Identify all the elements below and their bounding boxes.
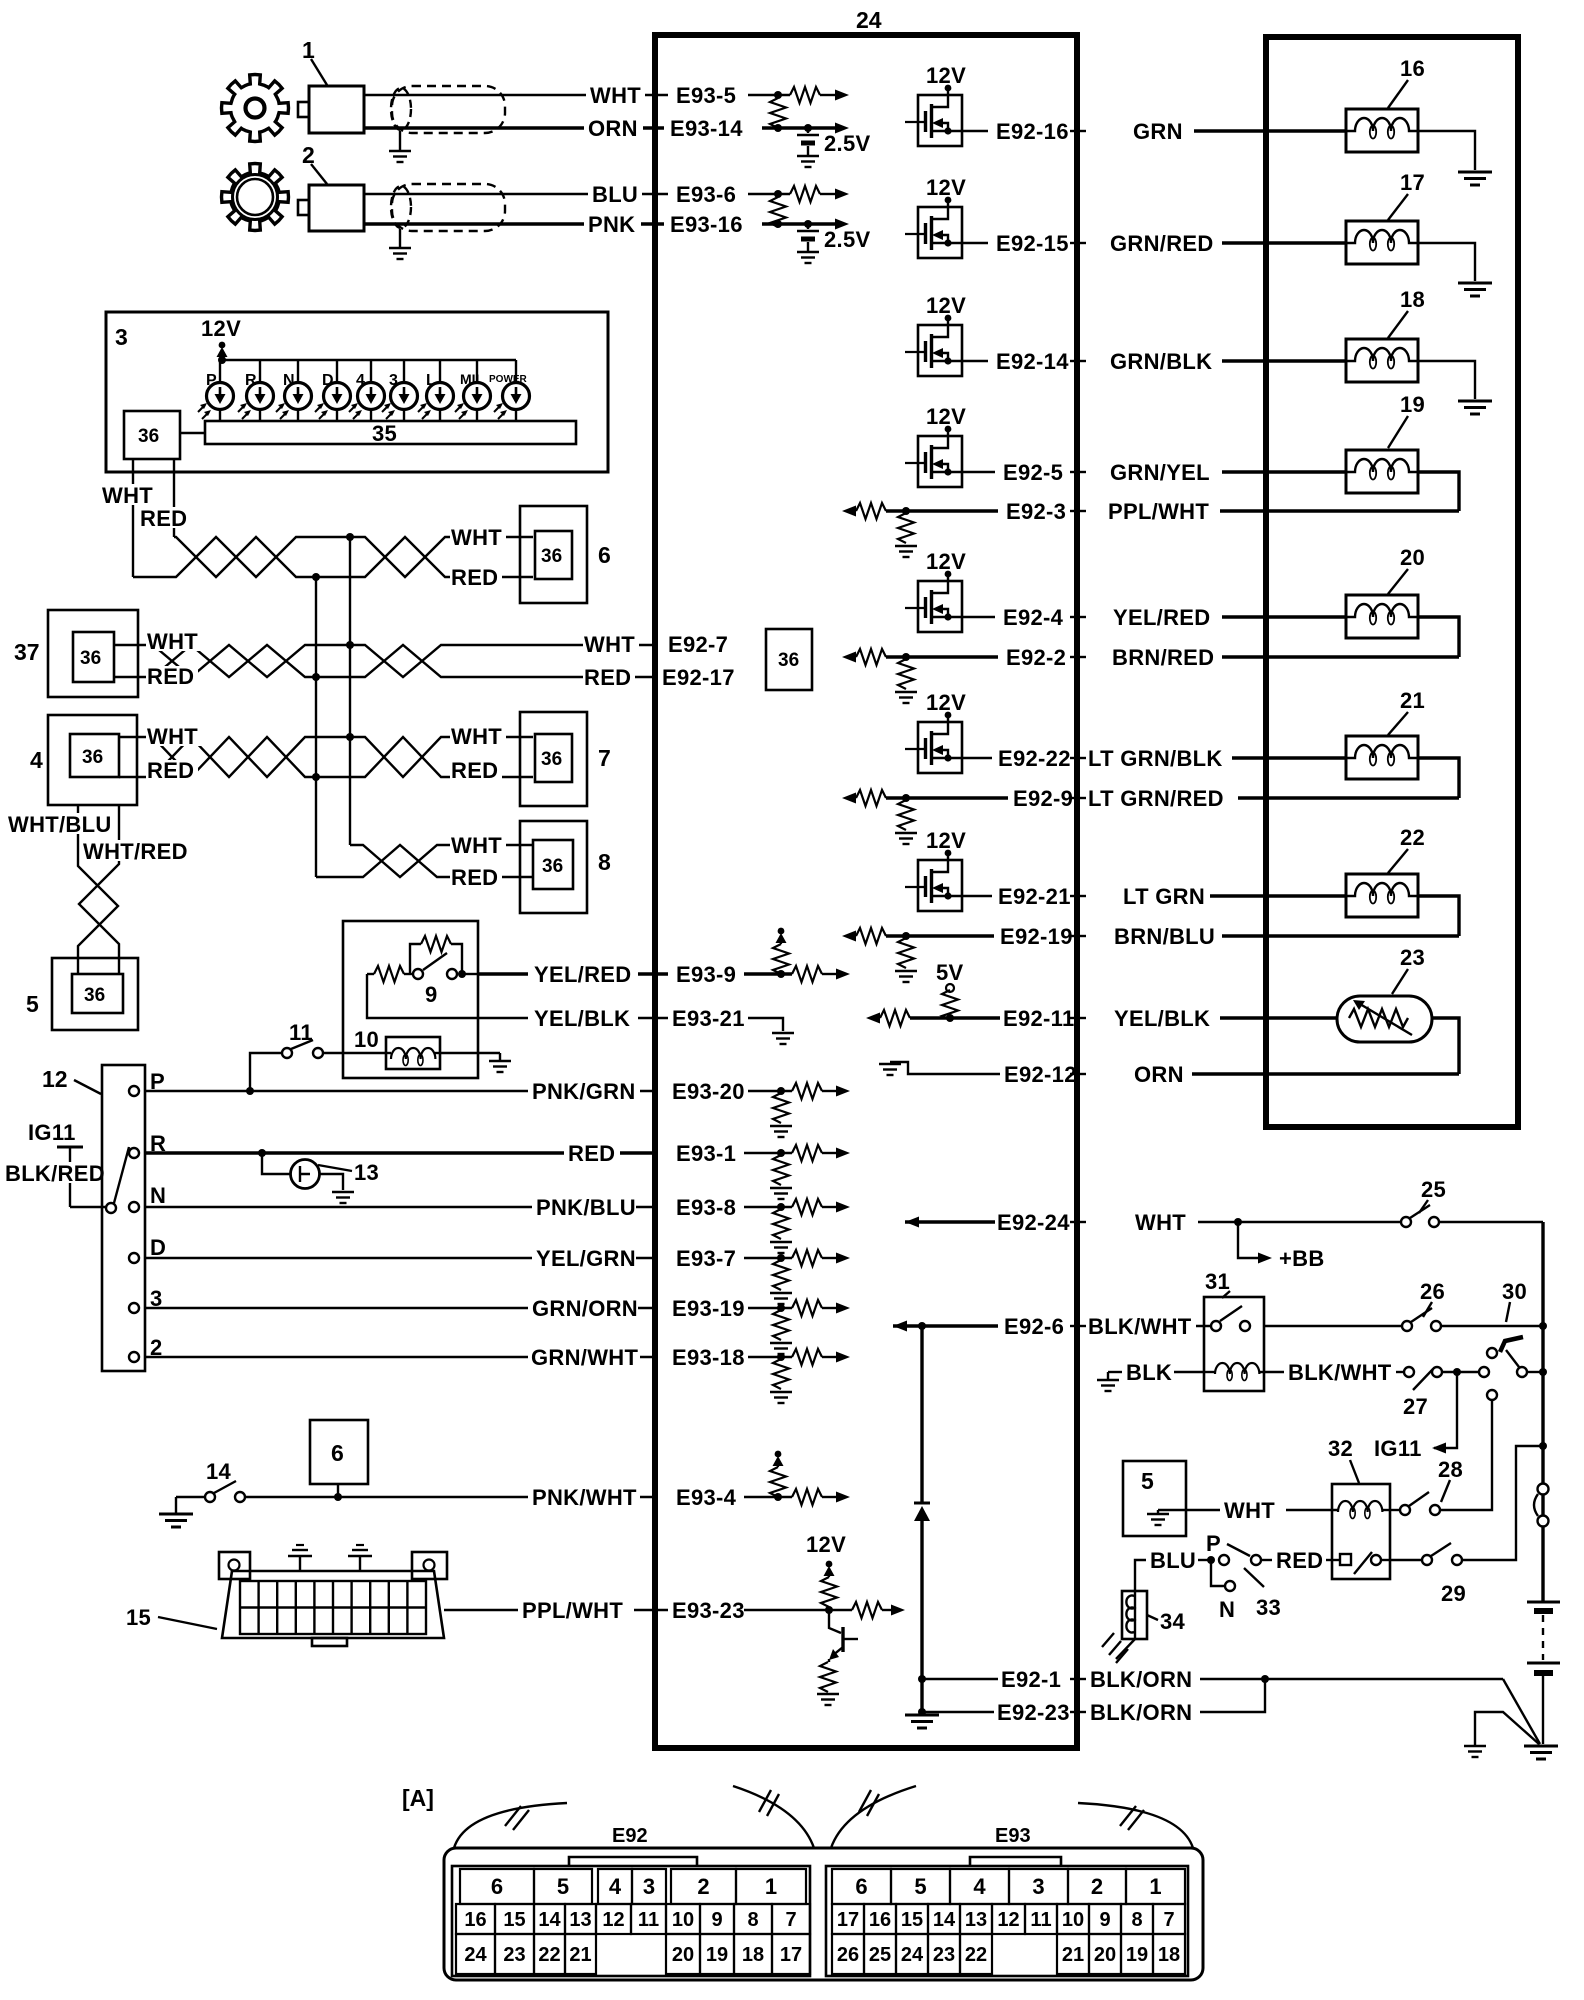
svg-text:6: 6 bbox=[598, 542, 611, 568]
pulldown E92-3 bbox=[842, 503, 998, 557]
E92 pin row 2 (7..16) bbox=[456, 1904, 810, 1934]
svg-text:5: 5 bbox=[1141, 1468, 1154, 1494]
shield connector 36 (panel) bbox=[124, 411, 205, 459]
svg-text:13: 13 bbox=[354, 1160, 379, 1185]
svg-text:RED: RED bbox=[451, 565, 498, 590]
ECU box 24 bbox=[655, 7, 1077, 1748]
wire switch 11 to P line bbox=[246, 1053, 282, 1095]
pin E93-1 bbox=[676, 1141, 850, 1199]
svg-text:4: 4 bbox=[609, 1874, 622, 1899]
svg-text:17: 17 bbox=[837, 1909, 859, 1931]
svg-text:E93-4: E93-4 bbox=[676, 1485, 737, 1510]
pin E92-6 bbox=[1004, 1314, 1086, 1339]
svg-text:12V: 12V bbox=[926, 404, 966, 429]
pin E92-4 bbox=[1003, 605, 1086, 630]
svg-text:25: 25 bbox=[1421, 1177, 1446, 1202]
resistor to comparator E93-9 bbox=[792, 966, 850, 982]
driver module 35 bbox=[205, 421, 576, 446]
pin E93-4 bbox=[676, 1451, 850, 1510]
indicator lamp 3 bbox=[382, 360, 418, 421]
svg-text:4: 4 bbox=[356, 372, 365, 389]
svg-text:E92-1: E92-1 bbox=[1001, 1667, 1061, 1692]
svg-text:RED: RED bbox=[140, 506, 187, 531]
switch 26 bbox=[1402, 1279, 1547, 1331]
svg-text:E92-6: E92-6 bbox=[1004, 1314, 1064, 1339]
sensor 1 connector box bbox=[298, 86, 364, 133]
junction node (pair 6 top) bbox=[346, 533, 354, 541]
svg-text:WHT: WHT bbox=[102, 483, 153, 508]
svg-text:GRN/ORN: GRN/ORN bbox=[532, 1296, 638, 1321]
pin E92-14 bbox=[996, 349, 1086, 374]
node E93-16 bbox=[670, 212, 849, 237]
svg-text:1: 1 bbox=[1149, 1874, 1161, 1899]
pull-up resistor E93-9 bbox=[773, 928, 789, 974]
svg-text:6: 6 bbox=[855, 1874, 867, 1899]
indicator lamp 4 bbox=[349, 360, 385, 421]
twisted pair 4 : WHT wire bbox=[119, 737, 533, 777]
indicator lamp N bbox=[276, 360, 312, 421]
pin E92-7 bbox=[664, 632, 734, 657]
transistor Q1 (E93-23) bbox=[829, 1610, 858, 1660]
shield splice bus A bbox=[346, 537, 354, 845]
svg-text:37: 37 bbox=[14, 639, 40, 665]
pin E93-8 bbox=[676, 1195, 850, 1253]
internal rail with diode bbox=[905, 1326, 939, 1728]
shift solenoid 18 bbox=[1346, 287, 1425, 382]
shield 2 (dashed) bbox=[391, 184, 505, 231]
svg-text:+BB: +BB bbox=[1279, 1246, 1325, 1271]
svg-text:5: 5 bbox=[26, 991, 39, 1017]
pin E92-16 bbox=[996, 119, 1086, 144]
node E93-14 bbox=[670, 116, 849, 141]
transistor driver E92-14 bbox=[905, 293, 988, 376]
svg-text:8: 8 bbox=[747, 1909, 758, 1931]
svg-text:17: 17 bbox=[780, 1944, 802, 1966]
svg-text:20: 20 bbox=[1400, 545, 1425, 570]
svg-text:2: 2 bbox=[302, 142, 315, 168]
connector 7 (shield 36) bbox=[520, 712, 611, 806]
svg-text:ORN: ORN bbox=[1134, 1062, 1184, 1087]
svg-text:36: 36 bbox=[82, 747, 103, 768]
svg-text:4: 4 bbox=[30, 747, 43, 773]
pair 6 labels bbox=[450, 525, 506, 590]
wire PNK/GRN (P) bbox=[145, 1079, 655, 1104]
data link connector 15 bbox=[219, 1552, 447, 1646]
svg-text:E93-9: E93-9 bbox=[676, 962, 736, 987]
starter feed wire bbox=[1440, 1400, 1492, 1510]
svg-text:GRN/YEL: GRN/YEL bbox=[1110, 460, 1210, 485]
svg-text:WHT: WHT bbox=[451, 525, 502, 550]
ground plate 5 (second) bbox=[1123, 1461, 1186, 1536]
connector E93 housing bbox=[826, 1825, 1188, 1976]
svg-text:E92-9: E92-9 bbox=[1013, 786, 1073, 811]
svg-text:16: 16 bbox=[464, 1909, 486, 1931]
wire ORN sensor1 bbox=[364, 116, 664, 141]
svg-text:2.5V: 2.5V bbox=[824, 227, 870, 252]
wire GRN/RED bbox=[1110, 231, 1346, 256]
svg-text:29: 29 bbox=[1441, 1581, 1466, 1606]
switch 14 bbox=[205, 1459, 245, 1502]
connector 8 (shield 36) bbox=[520, 821, 611, 913]
svg-text:12V: 12V bbox=[201, 316, 241, 341]
svg-text:36: 36 bbox=[542, 856, 563, 877]
wire BRN/BLU bbox=[1114, 924, 1459, 949]
svg-text:31: 31 bbox=[1205, 1269, 1230, 1294]
svg-text:P: P bbox=[206, 372, 217, 389]
svg-text:PNK: PNK bbox=[588, 212, 635, 237]
pin E92-21 bbox=[998, 884, 1086, 909]
svg-text:GRN/RED: GRN/RED bbox=[1110, 231, 1214, 256]
svg-text:25: 25 bbox=[869, 1944, 891, 1966]
pulldown E92-9 bbox=[842, 790, 1008, 844]
switch 11 bbox=[282, 1020, 386, 1058]
shift solenoid 17 bbox=[1346, 170, 1425, 264]
speed sensor 2 (gear) bbox=[222, 164, 289, 231]
svg-text:N: N bbox=[1219, 1597, 1235, 1622]
svg-text:WHT: WHT bbox=[1224, 1498, 1275, 1523]
svg-text:3: 3 bbox=[643, 1874, 655, 1899]
panel supply bus bbox=[222, 359, 516, 361]
resistor (parallel, box 9) bbox=[410, 936, 462, 974]
pin E92-3 bbox=[1006, 499, 1086, 524]
svg-text:11: 11 bbox=[638, 1909, 659, 1931]
throttle switch module box (9) bbox=[343, 921, 478, 1078]
pin E93-7 bbox=[676, 1246, 850, 1304]
shield 1 (dashed) bbox=[391, 86, 505, 133]
svg-text:PPL/WHT: PPL/WHT bbox=[522, 1598, 623, 1623]
svg-text:E92-16: E92-16 bbox=[996, 119, 1069, 144]
wire WHT/RED bbox=[79, 805, 188, 975]
svg-text:28: 28 bbox=[1438, 1457, 1463, 1482]
wire RED (R) bbox=[145, 1141, 655, 1166]
svg-text:16: 16 bbox=[869, 1909, 891, 1931]
svg-text:E93-21: E93-21 bbox=[672, 1006, 745, 1031]
svg-text:12V: 12V bbox=[806, 1532, 846, 1557]
node E93-5 bbox=[676, 83, 790, 108]
svg-text:LT GRN: LT GRN bbox=[1123, 884, 1205, 909]
svg-text:18: 18 bbox=[742, 1944, 764, 1966]
12V supply (panel) bbox=[201, 316, 241, 364]
svg-text:RED: RED bbox=[451, 758, 498, 783]
wire WHT sensor1 bbox=[364, 83, 668, 108]
5V supply (E92-11) bbox=[936, 960, 964, 1020]
svg-text:3: 3 bbox=[1032, 1874, 1044, 1899]
svg-text:26: 26 bbox=[1420, 1279, 1445, 1304]
pin E92-23 bbox=[922, 1700, 1086, 1725]
svg-text:WHT/RED: WHT/RED bbox=[83, 839, 188, 864]
svg-text:22: 22 bbox=[965, 1944, 987, 1966]
pin E93-18 bbox=[672, 1345, 850, 1403]
svg-text:E93-14: E93-14 bbox=[670, 116, 743, 141]
pin E92-5 bbox=[1003, 460, 1086, 485]
E92 pin row 1 (cavities 6..1) bbox=[460, 1869, 806, 1904]
svg-text:E92-11: E92-11 bbox=[1003, 1006, 1075, 1031]
svg-text:MIL: MIL bbox=[460, 371, 485, 387]
svg-text:24: 24 bbox=[464, 1944, 487, 1966]
back-up lamp feed 13 bbox=[262, 1153, 379, 1203]
svg-text:5: 5 bbox=[557, 1874, 569, 1899]
connector 5 (shield 36) bbox=[26, 958, 138, 1030]
svg-text:20: 20 bbox=[672, 1944, 694, 1966]
svg-text:E93-19: E93-19 bbox=[672, 1296, 745, 1321]
svg-text:18: 18 bbox=[1400, 287, 1425, 312]
ignition switch 30 bbox=[1479, 1279, 1547, 1400]
ground diagonal (BLK/ORN) bbox=[1503, 1679, 1540, 1744]
pin E92-19 bbox=[1000, 924, 1086, 949]
svg-text:E93-20: E93-20 bbox=[672, 1079, 745, 1104]
contact R bbox=[129, 1131, 166, 1158]
harness curve 2 bbox=[733, 1786, 814, 1848]
capacitor 2.5V (E93-16) bbox=[797, 224, 870, 263]
wire LT GRN/RED bbox=[1088, 786, 1459, 811]
pair 4 labels left bbox=[146, 724, 202, 783]
svg-text:12V: 12V bbox=[926, 175, 966, 200]
indicator lamp POWER bbox=[489, 360, 530, 421]
wire LT GRN bbox=[1123, 884, 1346, 909]
relay 31 coil bbox=[1204, 1363, 1264, 1381]
wire BLK/ORN (E92-23) bbox=[1090, 1679, 1265, 1725]
pin E92-22 bbox=[998, 746, 1086, 771]
indicator lamp MIL bbox=[455, 360, 491, 421]
battery ground bbox=[1524, 1746, 1558, 1759]
svg-text:2.5V: 2.5V bbox=[824, 131, 870, 156]
svg-text:IG11: IG11 bbox=[1374, 1436, 1422, 1461]
pulldown E92-19 bbox=[842, 928, 994, 982]
ground (18) bbox=[1418, 361, 1492, 414]
svg-text:21: 21 bbox=[1400, 688, 1425, 713]
wire BRN/RED bbox=[1112, 645, 1459, 670]
contact 2 bbox=[129, 1335, 163, 1362]
resistor (series, box 9) bbox=[367, 966, 413, 982]
pulldown E92-11 bbox=[866, 1010, 1000, 1026]
wire GRN/YEL bbox=[1110, 460, 1346, 485]
svg-text:36: 36 bbox=[138, 426, 159, 447]
contact 3 bbox=[129, 1286, 163, 1313]
wire WHT (panel down) bbox=[101, 459, 155, 577]
connector 6 (shield 36) bbox=[520, 506, 611, 603]
temp sensor 23 bbox=[1337, 945, 1432, 1042]
svg-text:E92-2: E92-2 bbox=[1006, 645, 1066, 670]
harness curve 4 bbox=[1078, 1803, 1193, 1848]
svg-text:IG11: IG11 bbox=[28, 1120, 76, 1145]
internal ground E92-12 bbox=[879, 1062, 1000, 1075]
svg-text:12: 12 bbox=[997, 1909, 1019, 1931]
park/neutral solenoid 34 bbox=[1122, 1591, 1186, 1639]
switch 25 bbox=[1401, 1177, 1543, 1227]
junction node (pair 6 bottom) bbox=[312, 573, 320, 581]
label 15 bbox=[126, 1605, 217, 1630]
resistor pull (E93-5) bbox=[790, 87, 849, 103]
E93 pin row 3 (18..26) bbox=[832, 1934, 1185, 1974]
shift solenoid 16 bbox=[1346, 56, 1425, 152]
pin E92-1 bbox=[922, 1667, 1086, 1692]
pin E92-15 bbox=[996, 231, 1086, 256]
resistor output (E93-23) bbox=[852, 1602, 905, 1618]
wire WHT/BLU bbox=[6, 805, 118, 975]
shield 2 ground bbox=[389, 229, 411, 259]
svg-text:LT GRN/RED: LT GRN/RED bbox=[1088, 786, 1224, 811]
twisted pair 37 : WHT wire bbox=[114, 645, 655, 677]
twisted pair 37 : RED wire bbox=[114, 645, 655, 677]
chassis tie with ground bbox=[1464, 1712, 1539, 1757]
svg-text:ORN: ORN bbox=[588, 116, 638, 141]
svg-text:9: 9 bbox=[425, 982, 438, 1007]
svg-text:36: 36 bbox=[84, 985, 105, 1006]
svg-text:24: 24 bbox=[856, 7, 882, 33]
chassis ground (34) bbox=[1102, 1633, 1135, 1663]
shift solenoid 20 bbox=[1346, 545, 1425, 638]
svg-text:36: 36 bbox=[80, 648, 101, 669]
indicator lamp L bbox=[418, 360, 454, 421]
switch 9 bbox=[413, 953, 478, 1007]
svg-text:RED: RED bbox=[147, 758, 194, 783]
svg-text:E93: E93 bbox=[995, 1825, 1031, 1847]
svg-text:1: 1 bbox=[765, 1874, 777, 1899]
svg-text:YEL/BLK: YEL/BLK bbox=[534, 1006, 630, 1031]
twisted pair to 6 : WHT wire bbox=[133, 537, 533, 577]
svg-text:E93-6: E93-6 bbox=[676, 182, 736, 207]
connector view label [A] bbox=[402, 1785, 434, 1811]
transistor driver E92-16 bbox=[905, 63, 988, 146]
shift solenoid 22 bbox=[1346, 825, 1425, 917]
shield connector 36 (inside ECU) bbox=[766, 629, 812, 690]
wire WHT (relay 32 coil) bbox=[1186, 1498, 1338, 1523]
pin E92-2 bbox=[1006, 645, 1086, 670]
node E93-6 bbox=[676, 182, 790, 207]
ground (solenoid 10) bbox=[440, 1053, 511, 1072]
pin ticks E93 side bbox=[654, 88, 656, 1617]
svg-text:D: D bbox=[150, 1235, 166, 1260]
right rail bbox=[1541, 1222, 1544, 1602]
svg-text:WHT: WHT bbox=[451, 833, 502, 858]
contact D bbox=[129, 1235, 166, 1263]
wire YEL/RED (E92-4) bbox=[1113, 605, 1346, 630]
svg-text:3: 3 bbox=[389, 372, 398, 389]
twisted pair 8 : top wire bbox=[350, 845, 533, 877]
svg-text:12V: 12V bbox=[926, 549, 966, 574]
svg-text:YEL/GRN: YEL/GRN bbox=[536, 1246, 636, 1271]
resistor pull (E93-6) bbox=[790, 186, 849, 202]
pair 4 labels right bbox=[450, 724, 506, 783]
ground stub left (connector 15) bbox=[288, 1545, 312, 1571]
svg-text:35: 35 bbox=[372, 421, 397, 446]
wire YEL/GRN (D) bbox=[145, 1246, 655, 1271]
svg-text:34: 34 bbox=[1160, 1609, 1186, 1634]
contact P bbox=[129, 1069, 165, 1096]
connector E92 housing bbox=[452, 1825, 810, 1976]
svg-text:BLK/ORN: BLK/ORN bbox=[1090, 1700, 1192, 1725]
switch 28 bbox=[1390, 1457, 1463, 1515]
svg-text:E92-5: E92-5 bbox=[1003, 460, 1063, 485]
wire YEL/RED bbox=[478, 962, 668, 987]
svg-text:E92-19: E92-19 bbox=[1000, 924, 1073, 949]
svg-text:E93-18: E93-18 bbox=[672, 1345, 745, 1370]
wire PPL/WHT bbox=[444, 1598, 668, 1623]
svg-text:17: 17 bbox=[1400, 170, 1425, 195]
indicator lamp R bbox=[238, 360, 274, 421]
twisted pair to 6 : RED wire bbox=[174, 537, 533, 577]
wire YEL/BLK (E92-11) bbox=[1114, 1006, 1337, 1031]
svg-text:E92-23: E92-23 bbox=[997, 1700, 1070, 1725]
svg-text:13: 13 bbox=[965, 1909, 987, 1931]
wire YEL/BLK bbox=[367, 974, 668, 1031]
contact N bbox=[129, 1183, 166, 1212]
svg-text:YEL/RED: YEL/RED bbox=[534, 962, 631, 987]
pin E93-9 bbox=[676, 962, 792, 987]
svg-text:23: 23 bbox=[933, 1944, 955, 1966]
pin E92-11 bbox=[1003, 1006, 1086, 1031]
pin E93-20 bbox=[672, 1079, 850, 1137]
svg-text:36: 36 bbox=[778, 650, 799, 671]
svg-text:23: 23 bbox=[1400, 945, 1425, 970]
svg-text:RED: RED bbox=[147, 664, 194, 689]
pin E93-23 bbox=[672, 1598, 852, 1623]
svg-text:16: 16 bbox=[1400, 56, 1425, 81]
svg-text:7: 7 bbox=[785, 1909, 796, 1931]
svg-text:15: 15 bbox=[503, 1909, 525, 1931]
svg-text:E92-4: E92-4 bbox=[1003, 605, 1064, 630]
svg-text:RED: RED bbox=[568, 1141, 615, 1166]
label 1 bbox=[302, 37, 327, 85]
wire BLU sensor2 bbox=[364, 182, 668, 207]
indicator panel 3 box bbox=[106, 312, 608, 472]
wire ORN (E92-12) bbox=[1134, 1062, 1459, 1087]
connector 4 (shield 36) bbox=[30, 715, 137, 805]
twisted pair 8 : bottom wire bbox=[316, 845, 533, 877]
svg-text:8: 8 bbox=[1131, 1909, 1142, 1931]
svg-text:E93-1: E93-1 bbox=[676, 1141, 736, 1166]
svg-text:10: 10 bbox=[1062, 1909, 1084, 1931]
svg-text:E92-14: E92-14 bbox=[996, 349, 1069, 374]
wire GRN/ORN (3) bbox=[145, 1296, 655, 1321]
emitter resistor to ground (E93-23) bbox=[817, 1659, 839, 1705]
svg-text:22: 22 bbox=[538, 1944, 560, 1966]
svg-text:E93-7: E93-7 bbox=[676, 1246, 736, 1271]
svg-text:L: L bbox=[426, 372, 436, 389]
wire GRN/WHT (2) bbox=[145, 1345, 655, 1370]
svg-text:WHT/BLU: WHT/BLU bbox=[8, 812, 112, 837]
svg-text:10: 10 bbox=[354, 1027, 379, 1052]
battery bbox=[1527, 1602, 1560, 1744]
12V supply (E93-23) bbox=[806, 1532, 846, 1607]
svg-text:7: 7 bbox=[1163, 1909, 1174, 1931]
pin E92-17 bbox=[660, 665, 742, 690]
connector 6 (second) bbox=[310, 1420, 368, 1501]
harness curve 1 bbox=[454, 1803, 567, 1848]
return wire (20) bbox=[1418, 617, 1459, 657]
svg-text:8: 8 bbox=[598, 849, 611, 875]
svg-text:2: 2 bbox=[1091, 1874, 1103, 1899]
indicator lamp D bbox=[315, 360, 351, 421]
transistor driver E92-15 bbox=[905, 175, 988, 258]
svg-text:19: 19 bbox=[1400, 392, 1425, 417]
svg-text:5: 5 bbox=[914, 1874, 926, 1899]
ground (switch 14) bbox=[159, 1497, 205, 1527]
svg-text:E92-3: E92-3 bbox=[1006, 499, 1066, 524]
harness curve 3 bbox=[831, 1786, 916, 1848]
svg-text:WHT: WHT bbox=[147, 629, 198, 654]
svg-text:21: 21 bbox=[1062, 1944, 1084, 1966]
pulldown E92-2 bbox=[842, 649, 998, 703]
svg-text:E92-17: E92-17 bbox=[662, 665, 735, 690]
svg-text:12: 12 bbox=[42, 1066, 68, 1092]
svg-text:E92: E92 bbox=[612, 1825, 648, 1847]
ground stub right (connector 15) bbox=[348, 1545, 372, 1571]
svg-text:4: 4 bbox=[973, 1874, 986, 1899]
wire GRN/BLK bbox=[1110, 349, 1346, 374]
svg-text:5V: 5V bbox=[936, 960, 964, 985]
transistor driver E92-22 bbox=[905, 690, 992, 773]
